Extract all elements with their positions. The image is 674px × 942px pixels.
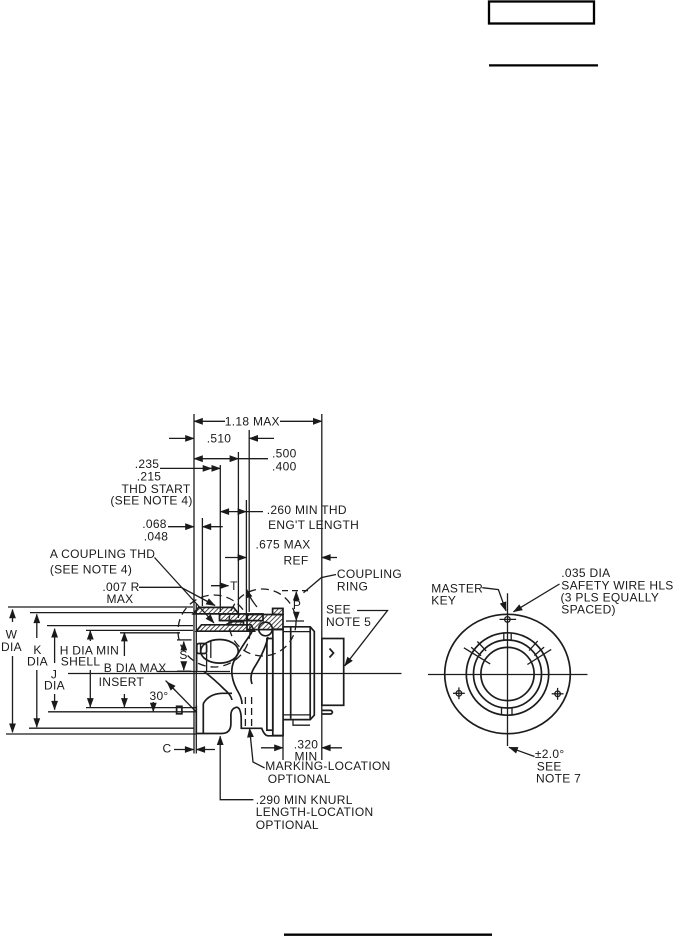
pin plate notch [330, 649, 334, 658]
safety wire hole left [453, 687, 465, 699]
svg-text:DIA: DIA [44, 679, 65, 693]
coupling ring body [283, 627, 314, 720]
dashed phantom circle left [178, 595, 250, 667]
ring skirt [293, 720, 310, 726]
hatched block right [247, 615, 283, 630]
ext line W bottom [6, 733, 196, 735]
extension line v6 (.510 right) [248, 430, 250, 612]
dim C [163, 742, 215, 756]
svg-text:MARKING-LOCATION: MARKING-LOCATION [265, 759, 390, 773]
insert bottom line [157, 671, 230, 673]
svg-text:.260 MIN THD: .260 MIN THD [267, 503, 347, 517]
svg-text:A COUPLING THD: A COUPLING THD [50, 547, 155, 561]
bayonet pin [322, 710, 333, 714]
hatched thread band top [193, 607, 239, 614]
bore circle [481, 647, 534, 700]
ext line J bottom [48, 711, 196, 713]
dim .260 MIN THD ENG'T LENGTH [220, 503, 359, 532]
svg-text:ENG'T LENGTH: ENG'T LENGTH [268, 518, 359, 532]
dim .235 / .215 (thread start) [110, 457, 220, 508]
ext line J top [47, 625, 193, 627]
extension line v9 (.320 left) [282, 736, 284, 760]
svg-text:1.18 MAX: 1.18 MAX [225, 415, 280, 429]
dim S [177, 640, 192, 671]
label MASTER KEY [431, 582, 506, 611]
key ticks upper-right [529, 641, 538, 651]
svg-text:C: C [163, 742, 172, 756]
svg-text:INSERT: INSERT [99, 675, 145, 689]
safety wire hole top [500, 617, 517, 623]
dim .500 / .400 [194, 447, 297, 474]
ring body chamfer lines [283, 631, 310, 633]
key ticks upper-left [477, 642, 486, 651]
extension line v1 (shell face / 1.18 left) [193, 414, 195, 754]
interior casting wave 2 [251, 637, 268, 684]
ring body inner line [290, 628, 292, 719]
svg-text:30°: 30° [149, 689, 168, 703]
knurl left edge [202, 704, 204, 734]
label MARKING-LOCATION OPTIONAL [245, 697, 390, 786]
label .290 MIN KNURL LENGTH-LOCATION OPTIONAL [220, 736, 373, 832]
keyway diagonal upper-right [527, 649, 551, 664]
label 30 deg [149, 681, 196, 713]
svg-text:OPTIONAL: OPTIONAL [256, 818, 319, 832]
insert grommet oval [201, 640, 239, 664]
svg-text:T: T [230, 579, 238, 593]
svg-text:.400: .400 [272, 460, 297, 474]
svg-text:(SEE NOTE 4): (SEE NOTE 4) [50, 563, 132, 577]
coupling ring flange B [273, 629, 283, 735]
svg-text:(SEE NOTE 4): (SEE NOTE 4) [110, 494, 192, 508]
extension line v5 (.675 left) [245, 500, 247, 620]
svg-text:B DIA MAX: B DIA MAX [104, 661, 167, 675]
extension line v3 (thread start) [219, 465, 221, 612]
rear end cap [177, 706, 182, 714]
ext line K top [30, 612, 193, 614]
front view crosshair vertical [507, 593, 509, 746]
backshell knurl outline [196, 706, 283, 736]
bayonet pin plate [322, 639, 344, 706]
ext line W top [8, 606, 193, 608]
extension line v2 (C right) [195, 604, 197, 754]
interior casting wave 1 [232, 632, 252, 704]
extension line v7 (1.18 right / ring edge) [321, 414, 323, 760]
svg-text:DIA: DIA [27, 655, 48, 669]
interior wave to knurl [204, 672, 232, 701]
svg-text:.048: .048 [144, 530, 169, 544]
dim W DIA [1, 610, 22, 733]
ext line B top [120, 632, 180, 634]
ring right vertical [309, 627, 311, 720]
safety wire hole right [552, 688, 564, 700]
hatched flange top block [273, 608, 283, 614]
extension line v4 (.500 right) [237, 452, 239, 618]
keyway diagonal upper-left [464, 648, 490, 664]
svg-text:MAX: MAX [107, 592, 134, 606]
ext line H top / bore [86, 629, 193, 631]
dim P [282, 591, 308, 621]
knurl top shoulder [203, 693, 232, 703]
header underline [489, 64, 598, 66]
header box (top right) [489, 2, 594, 24]
keyway slot bottom [501, 707, 503, 716]
svg-text:KEY: KEY [431, 594, 456, 608]
master key ticks top [503, 633, 505, 640]
dim .320 MIN [261, 737, 342, 763]
ext line K bottom [29, 727, 194, 729]
extension line v8 (.048 thread line) [201, 518, 203, 606]
dim K DIA [27, 614, 48, 727]
hatched lower band [196, 625, 254, 631]
outer flange circle [445, 614, 571, 733]
dim B DIA MAX INSERT [99, 633, 167, 707]
dim H DIA MIN SHELL [60, 631, 119, 707]
hatched key bump on lower band [226, 622, 244, 625]
svg-text:.500: .500 [272, 447, 297, 461]
ext line H bottom [86, 707, 196, 709]
label .035 DIA SAFETY WIRE HLS [514, 566, 674, 617]
label A COUPLING THD (SEE NOTE 4) [50, 547, 214, 623]
detent ball [259, 622, 273, 636]
svg-text:RING: RING [337, 580, 368, 594]
coupling circle [466, 633, 548, 715]
dim J DIA [44, 629, 65, 710]
svg-text:SPACED): SPACED) [561, 603, 616, 617]
svg-text:OPTIONAL: OPTIONAL [268, 772, 331, 786]
centerline [68, 673, 402, 675]
dim .675 MAX REF [225, 538, 337, 568]
svg-text:SHELL: SHELL [61, 655, 101, 669]
shell circle [474, 640, 542, 708]
dim .068 / .048 [142, 517, 222, 544]
dim .510 [169, 432, 274, 446]
label .007 R MAX [102, 580, 215, 606]
svg-text:NOTE 7: NOTE 7 [536, 772, 581, 786]
label T [211, 579, 257, 607]
label SEE NOTE 5 [326, 603, 388, 666]
hatched mid strip [220, 614, 264, 621]
front view crosshair horizontal [428, 674, 588, 676]
label COUPLING RING [304, 567, 402, 594]
svg-text:NOTE 5: NOTE 5 [326, 615, 371, 629]
dashed phantom circle right [229, 589, 296, 656]
svg-text:.510: .510 [207, 432, 232, 446]
insert clip rect [197, 644, 207, 654]
dim 1.18 MAX [194, 415, 322, 429]
svg-text:LENGTH-LOCATION: LENGTH-LOCATION [256, 805, 374, 819]
svg-text:REF: REF [284, 554, 309, 568]
coupling ring flange A [267, 639, 273, 731]
footer line (bottom center) [284, 934, 492, 936]
svg-text:DIA: DIA [1, 640, 22, 654]
label plus-minus 2.0 SEE NOTE 7 [509, 747, 581, 786]
svg-text:.675 MAX: .675 MAX [255, 538, 310, 552]
